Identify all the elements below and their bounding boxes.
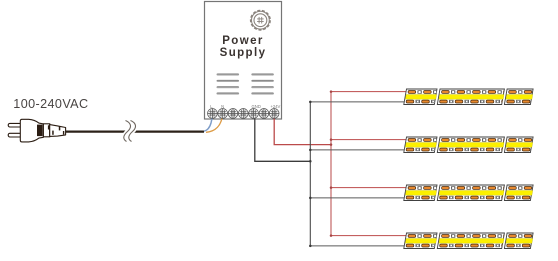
junction black feed / black bus [309,160,312,163]
LED strip 1 segment 2 [437,89,511,105]
LED strip 3 segment 2 [437,185,511,201]
svg-text:N: N [221,104,224,109]
junction red feed / red bus [330,143,333,146]
wire +24V red feed down [274,113,331,144]
red branch wire to strip 2 [331,139,406,141]
wire L blue [204,113,212,131]
junction black bus / branch 3 [309,197,312,200]
cable break symbol [124,121,136,142]
wire N orange [206,113,223,132]
terminal screw 3 [228,109,238,119]
LED strip 1 segment 3 [504,89,537,105]
power cord wire [66,131,204,133]
LED strip 2 segment 2 [437,137,511,153]
red branch wire to strip 4 [331,235,406,237]
plug prong lower [8,133,21,137]
terminal screw 2 [218,109,228,119]
black branch wire to strip 3 [310,197,404,199]
svg-text:100-240VAC: 100-240VAC [13,97,88,111]
terminal screw 6 [259,109,269,119]
black branch wire to strip 1 [310,101,404,103]
red bus wire [330,92,332,236]
vent slots right column [251,74,274,95]
cord grip section 1 [43,124,49,137]
LED strip 3 segment 1 [404,185,445,201]
svg-text:Supply: Supply [220,47,267,59]
LED strip 1 segment 1 [404,89,445,105]
red branch wire to strip 3 [331,187,406,189]
LED strip 4 segment 3 [504,233,537,249]
LED strip 2 segment 3 [504,137,537,153]
black bus wire [309,102,311,246]
cord grip ridge marks [48,125,64,135]
junction black bus / branch 4 [309,245,312,248]
junction red bus / branch 3 [330,186,333,189]
LED strip 3 segment 3 [504,185,537,201]
plug prong upper [8,123,21,127]
LED strip 4 segment 2 [437,233,511,249]
junction red bus / branch 4 [330,234,333,237]
junction red bus / branch 2 [330,138,333,141]
svg-text:Power: Power [222,35,264,47]
terminal screw 4 [238,109,248,119]
LED strip 4 segment 1 [404,233,445,249]
terminal screw 1 [208,109,218,119]
terminal screw 5 [249,109,259,119]
black branch wire to strip 2 [310,149,404,151]
cord grip taper [50,125,66,137]
plug neck dark insert [37,125,43,137]
junction red bus / branch 1 [330,90,333,93]
plug body [20,119,43,142]
wire GND black feed down [255,113,310,161]
junction black bus / branch 1 [309,101,312,104]
junction black bus / branch 2 [309,149,312,152]
power supply enclosure U1 [205,2,282,120]
vent slots left column [217,74,240,95]
red branch wire to strip 1 [331,91,406,93]
terminal screw 7 [269,109,279,119]
svg-text:+24V: +24V [270,104,280,109]
LED strip 2 segment 1 [404,137,445,153]
black branch wire to strip 4 [310,245,404,247]
svg-text:GND: GND [252,104,261,109]
adjustment knob [251,11,270,30]
